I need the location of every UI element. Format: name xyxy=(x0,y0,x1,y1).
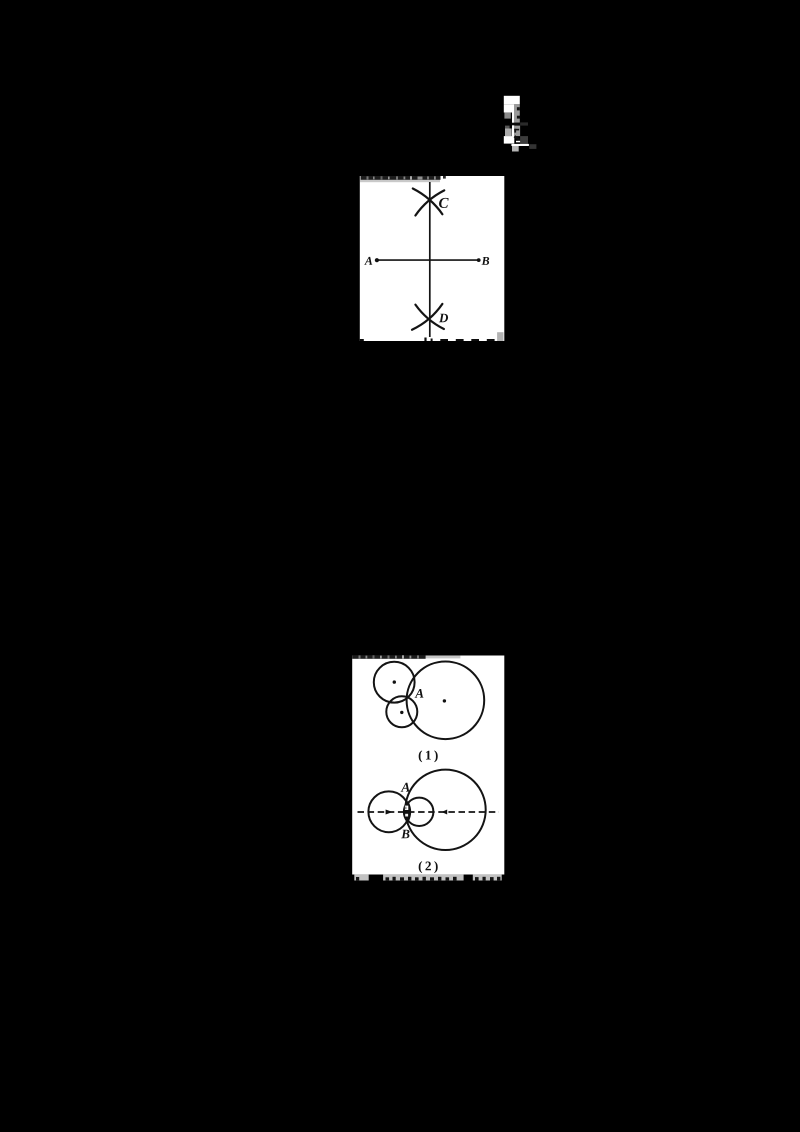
light gray block xyxy=(505,129,512,137)
label A xyxy=(364,257,372,265)
garbled caption strip top xyxy=(360,176,446,182)
white panel xyxy=(352,656,504,875)
label A fig1 xyxy=(415,689,424,698)
middle circle xyxy=(405,798,433,826)
arrow marker right (left circle center) xyxy=(386,810,393,815)
caption (2) xyxy=(419,861,438,873)
center dot small xyxy=(400,711,403,714)
point A dot xyxy=(375,258,379,262)
garbled strip bottom xyxy=(354,874,501,880)
label A fig2 xyxy=(401,783,410,792)
white crescent under 2 xyxy=(516,141,523,143)
point B dot xyxy=(477,258,481,262)
arc cross at C xyxy=(413,189,444,216)
white patch xyxy=(504,96,520,105)
medium circle xyxy=(374,662,415,703)
label C xyxy=(439,198,449,208)
white windows in lens xyxy=(405,806,408,810)
center dot medium xyxy=(393,680,396,683)
label B xyxy=(481,257,489,265)
vertical bisector line CD xyxy=(429,182,431,337)
partial fraction fragment (1/2) top right xyxy=(503,95,537,153)
dark band xyxy=(512,123,523,126)
white stem strip xyxy=(512,104,514,143)
light gray tail xyxy=(512,146,519,152)
large circle xyxy=(405,770,485,850)
small circle xyxy=(386,696,417,727)
white panel xyxy=(360,176,505,341)
gray fragment right of bar xyxy=(529,144,536,149)
dark gray block right xyxy=(520,136,528,144)
gray column with numeral 1 fragments xyxy=(514,104,520,122)
ragged bottom edge marks xyxy=(360,338,495,342)
numeral 2 strokes xyxy=(514,136,520,140)
segment AB xyxy=(377,259,479,261)
dashed center line xyxy=(358,811,500,813)
large circle xyxy=(407,662,485,740)
left circle xyxy=(368,791,409,832)
gray patch xyxy=(504,112,510,118)
figure box 2: circle configurations xyxy=(352,655,505,882)
filled lens at intersection xyxy=(404,803,409,821)
arrow marker left (large circle center) xyxy=(442,810,448,815)
label B fig2 xyxy=(401,830,409,839)
gray column mid xyxy=(514,126,520,137)
gray corner block bottom right xyxy=(497,332,503,341)
garbled caption strip top xyxy=(352,655,460,659)
white fraction bar xyxy=(511,144,529,146)
figure box 1: perpendicular bisector construction xyxy=(359,176,505,341)
white col low xyxy=(504,136,512,144)
dark gray dash xyxy=(505,126,510,129)
center dot large xyxy=(443,699,446,702)
label D xyxy=(439,314,448,323)
arc cross at D xyxy=(412,304,444,330)
caption (1) xyxy=(419,750,438,762)
